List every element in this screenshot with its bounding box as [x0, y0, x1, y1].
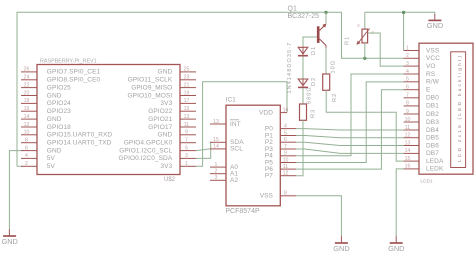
svg-text:P7: P7: [265, 173, 273, 180]
svg-text:10Ω: 10Ω: [331, 60, 337, 74]
wire IC1 P1 to LCD DB5: [296, 136, 404, 138]
wire IC1 P4 to LCD RS: [296, 74, 404, 156]
svg-text:15: 15: [405, 156, 411, 162]
wire IC1 VSS to ground: [296, 196, 341, 237]
svg-text:2: 2: [25, 161, 28, 167]
svg-text:17: 17: [184, 98, 190, 104]
svg-text:RASPBERRY-PI_REV1: RASPBERRY-PI_REV1: [40, 59, 97, 65]
ground symbol top right GND: [427, 20, 443, 30]
svg-text:1N4148DO35-7: 1N4148DO35-7: [287, 42, 293, 94]
svg-text:9: 9: [284, 151, 287, 157]
svg-text:R3: R3: [311, 109, 317, 118]
svg-text:13: 13: [405, 140, 411, 146]
svg-text:10: 10: [24, 130, 30, 136]
svg-text:7: 7: [406, 93, 409, 99]
svg-text:22: 22: [24, 82, 30, 88]
svg-text:A2: A2: [230, 177, 238, 184]
svg-text:15: 15: [184, 106, 190, 112]
svg-text:6: 6: [406, 85, 409, 91]
svg-text:13: 13: [184, 114, 190, 120]
svg-text:7: 7: [284, 144, 287, 150]
LCD pins 1-16: [404, 45, 444, 172]
svg-text:DB0: DB0: [426, 95, 439, 102]
svg-text:GND: GND: [427, 21, 443, 30]
svg-text:15: 15: [213, 137, 219, 143]
diode D1 1N4148: [298, 46, 317, 57]
svg-text:GPIO10_MOSI: GPIO10_MOSI: [127, 92, 172, 99]
svg-text:GND: GND: [47, 92, 62, 99]
svg-text:12: 12: [24, 122, 30, 128]
svg-text:R2: R2: [332, 93, 338, 102]
svg-text:Q1: Q1: [288, 6, 297, 13]
svg-text:U$2: U$2: [164, 177, 176, 183]
svg-text:GPIO9_MISO: GPIO9_MISO: [131, 84, 172, 91]
svg-text:GND: GND: [158, 132, 173, 139]
raspberry pi header U$2: [37, 59, 180, 184]
wire IC1 P0 to LCD DB4: [296, 129, 404, 130]
svg-text:PCF8574P: PCF8574P: [225, 208, 260, 215]
wire Pi SCL pin5 to IC1 SCL: [196, 149, 210, 151]
resistor R3 680 ohm: [300, 86, 317, 120]
svg-text:680Ω: 680Ω: [307, 86, 313, 104]
svg-text:LCD1: LCD1: [420, 178, 433, 184]
svg-text:VDD: VDD: [259, 109, 273, 116]
diode D2 1N4148: [298, 77, 317, 88]
svg-text:9: 9: [185, 130, 188, 136]
svg-text:DB4: DB4: [426, 127, 439, 134]
wire Pi pin6 GND to ground: [9, 151, 22, 230]
svg-text:20: 20: [24, 90, 30, 96]
trimmer R1: [345, 12, 375, 58]
svg-text:21: 21: [184, 82, 190, 88]
wire IC1 P2 to LCD DB6: [296, 142, 404, 145]
svg-text:GND: GND: [47, 147, 62, 154]
svg-text:D2: D2: [311, 77, 317, 86]
IC1 right pins VDD P0-P7 VSS: [259, 107, 296, 199]
svg-text:IC1: IC1: [226, 97, 236, 104]
svg-text:3V3: 3V3: [160, 163, 172, 170]
svg-text:2: 2: [215, 169, 218, 175]
svg-text:DB7: DB7: [426, 150, 439, 157]
wire R3 to IC1 P7: [296, 120, 303, 175]
svg-text:VSS: VSS: [260, 193, 274, 200]
svg-text:16: 16: [283, 107, 289, 113]
svg-text:14: 14: [213, 144, 219, 150]
svg-text:5: 5: [284, 130, 287, 136]
svg-text:GPIO4.GPCLK0: GPIO4.GPCLK0: [124, 140, 173, 147]
wire Pi 3V3 pin1 to IC1 VDD: [196, 82, 287, 167]
svg-text:R1: R1: [345, 36, 351, 45]
svg-text:10: 10: [283, 157, 289, 163]
wire R1 wiper to LCD VO pin3: [368, 33, 404, 66]
svg-text:6: 6: [25, 145, 28, 151]
svg-text:3: 3: [215, 175, 218, 181]
svg-text:GPIO15.UART0_RXD: GPIO15.UART0_RXD: [47, 132, 113, 139]
svg-text:3: 3: [185, 153, 188, 159]
wire IC1 P6 to LCD E: [296, 90, 404, 169]
wire Q1 collector to R2: [325, 48, 327, 75]
svg-text:LEDK: LEDK: [426, 166, 444, 173]
LCD1 display box LCD 2x16 LED backlight: [419, 43, 473, 184]
svg-text:DB3: DB3: [426, 119, 439, 126]
wire LCD LEDK to ground: [396, 169, 404, 237]
wire R2 to LCD LEDA pin15: [326, 90, 404, 161]
svg-text:GND: GND: [47, 116, 62, 123]
svg-text:26: 26: [24, 67, 30, 73]
wire D2 anode to R3: [302, 88, 304, 104]
svg-text:GND: GND: [1, 237, 17, 246]
svg-text:GPIO25: GPIO25: [47, 84, 71, 91]
svg-text:4: 4: [406, 69, 409, 75]
svg-text:SCL: SCL: [230, 146, 243, 153]
svg-text:GPIO21: GPIO21: [148, 116, 172, 123]
svg-text:16: 16: [24, 106, 30, 112]
svg-text:DB2: DB2: [426, 111, 439, 118]
svg-text:GPIO24: GPIO24: [47, 100, 71, 107]
svg-text:4: 4: [284, 123, 287, 129]
svg-text:GPIO17: GPIO17: [148, 124, 172, 131]
svg-text:3: 3: [406, 61, 409, 67]
junction node Q1 emitter on 5V rail: [324, 11, 327, 14]
svg-text:14: 14: [405, 148, 411, 154]
svg-text:5V: 5V: [47, 155, 56, 162]
svg-text:VCC: VCC: [426, 55, 440, 62]
svg-text:6: 6: [284, 137, 287, 143]
svg-text:11: 11: [184, 122, 189, 128]
svg-text:16: 16: [405, 164, 411, 170]
svg-text:GPIO1.I2C0_SCL: GPIO1.I2C0_SCL: [119, 147, 172, 154]
svg-text:9: 9: [406, 109, 409, 115]
svg-text:11: 11: [283, 164, 288, 170]
svg-text:D1: D1: [311, 46, 317, 55]
svg-text:5: 5: [185, 145, 188, 151]
raspberry pi header pins right side: [119, 67, 196, 170]
svg-text:12: 12: [283, 171, 289, 177]
wire 5V rail from Pi pin2 up and across top to VCC drop: [17, 12, 404, 166]
svg-text:E: E: [426, 87, 431, 94]
svg-text:GPIO23: GPIO23: [47, 108, 71, 115]
svg-text:GPIO22: GPIO22: [148, 108, 172, 115]
svg-text:3V3: 3V3: [160, 100, 172, 107]
ground symbol bottom left GND: [1, 235, 17, 246]
svg-text:5V: 5V: [47, 163, 56, 170]
svg-text:5: 5: [406, 77, 409, 83]
svg-text:DB1: DB1: [426, 103, 439, 110]
svg-text:LCD 2x16 (LED backlight): LCD 2x16 (LED backlight): [457, 54, 463, 162]
svg-text:1: 1: [406, 45, 409, 51]
svg-text:GND: GND: [333, 244, 349, 253]
junction node LCD VSS on GND rail: [402, 11, 405, 14]
svg-text:RS: RS: [426, 71, 436, 78]
IC U1: IC1 PCF8574P I2C port expander box: [225, 97, 280, 215]
svg-text:19: 19: [184, 90, 190, 96]
svg-text:13: 13: [213, 119, 219, 125]
svg-text:1: 1: [185, 161, 188, 167]
svg-text:INT: INT: [230, 121, 241, 128]
svg-text:4: 4: [25, 153, 28, 159]
junction node R1 bottom on VCC wire: [363, 57, 366, 60]
svg-text:DB5: DB5: [426, 135, 439, 142]
svg-text:18: 18: [24, 98, 30, 104]
wire Q1 base to D1 cathode: [303, 37, 317, 47]
svg-text:11: 11: [405, 125, 410, 131]
svg-text:25: 25: [184, 67, 190, 73]
svg-text:1: 1: [215, 162, 218, 168]
svg-text:7: 7: [185, 138, 188, 144]
svg-text:GND: GND: [388, 244, 404, 253]
svg-text:8: 8: [284, 191, 287, 197]
svg-text:12: 12: [405, 133, 411, 139]
svg-text:GPIO7.SPI0_CE1: GPIO7.SPI0_CE1: [47, 69, 101, 76]
svg-text:VO: VO: [426, 63, 436, 70]
svg-text:GPIO14.UART0_TXD: GPIO14.UART0_TXD: [47, 140, 112, 147]
svg-text:LEDA: LEDA: [426, 158, 444, 165]
svg-text:24: 24: [24, 75, 30, 81]
svg-text:10: 10: [405, 117, 411, 123]
wire IC1 P3 to LCD DB7: [296, 149, 404, 153]
svg-text:GPIO18: GPIO18: [47, 124, 71, 131]
ground symbol bottom right GND: [388, 242, 404, 253]
svg-text:GPIO11_SCLK: GPIO11_SCLK: [128, 77, 173, 84]
raspberry pi header pins left side: [21, 67, 112, 170]
svg-text:14: 14: [24, 114, 30, 120]
svg-text:VSS: VSS: [426, 47, 440, 54]
transistor Q1 BC327-25 PNP: [288, 6, 327, 48]
wire IC1 P5 to LCD R/W: [296, 82, 404, 163]
resistor R2 10 ohm: [323, 60, 338, 102]
svg-text:23: 23: [184, 75, 190, 81]
svg-text:2: 2: [406, 53, 409, 59]
svg-text:GND: GND: [158, 69, 173, 76]
svg-text:GPIO0.I2C0_SDA: GPIO0.I2C0_SDA: [119, 155, 173, 162]
svg-text:BC327-25: BC327-25: [288, 13, 320, 20]
wire D1 anode to D2 cathode: [302, 57, 304, 80]
wire Pi SDA pin3 to IC1 SDA: [196, 142, 211, 158]
svg-text:R/W: R/W: [426, 79, 440, 86]
svg-text:8: 8: [25, 138, 28, 144]
svg-text:8: 8: [406, 101, 409, 107]
svg-text:DB6: DB6: [426, 142, 439, 149]
IC1 left pins INT SDA SCL A0 A1 A2: [210, 119, 244, 184]
svg-text:GPIO8.SPI0_CE0: GPIO8.SPI0_CE0: [47, 77, 101, 84]
ground symbol bottom middle GND: [333, 242, 349, 253]
wire GND rail top right: [365, 12, 435, 50]
